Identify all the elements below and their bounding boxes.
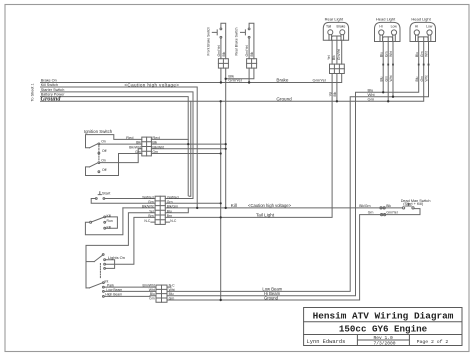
wire head light H2 leads [423, 37, 425, 42]
svg-text:Run: Run [107, 219, 113, 223]
wire lights N-C stub [167, 286, 171, 288]
wire ground branch mid [189, 101, 191, 196]
svg-text:Low: Low [391, 25, 398, 29]
front brake switch Q1 [221, 23, 226, 58]
wire front brake to buses [221, 68, 226, 82]
wire ignition Blk/Wht row [151, 148, 225, 150]
svg-text:Ignition Switch: Ignition Switch [84, 129, 113, 134]
svg-text:Ground: Ground [41, 96, 62, 103]
wire Kill Switch bus [41, 87, 198, 208]
svg-text:<Caution high voltage>: <Caution high voltage> [124, 82, 179, 87]
svg-text:High Beam: High Beam [105, 292, 122, 296]
head light H2 [410, 22, 436, 41]
svg-text:Brn: Brn [148, 214, 153, 218]
wire Ground top bus [41, 42, 424, 102]
svg-text:Grn: Grn [135, 150, 141, 154]
svg-text:Blk: Blk [250, 51, 254, 56]
svg-text:Low: Low [426, 25, 433, 29]
title block box [304, 308, 462, 346]
svg-text:To Sheet 1: To Sheet 1 [31, 83, 35, 101]
svg-text:Grn: Grn [152, 150, 158, 154]
svg-text:Red: Red [126, 135, 133, 140]
svg-text:On: On [101, 158, 106, 162]
svg-text:Rear Brake Switch: Rear Brake Switch [235, 27, 239, 55]
svg-text:Blk/Grn: Blk/Grn [359, 204, 370, 208]
svg-text:Grn/Yel: Grn/Yel [228, 78, 241, 83]
head light H1 [375, 22, 401, 41]
wire ground trunk A [220, 101, 222, 300]
svg-text:Grn/Yel: Grn/Yel [313, 78, 326, 83]
svg-text:Wht: Wht [425, 51, 429, 57]
wire Wht low-beam bus [167, 42, 429, 292]
svg-text:Brake: Brake [337, 25, 346, 29]
bullet connectors dead man row1 [380, 207, 382, 209]
svg-text:Grn: Grn [149, 297, 155, 301]
svg-text:150cc GY6 Engine: 150cc GY6 Engine [339, 323, 428, 334]
svg-text:Blk: Blk [222, 51, 226, 56]
svg-text:Start: Start [102, 190, 111, 195]
svg-text:Head Light: Head Light [376, 17, 396, 22]
svg-text:Grn/Yel: Grn/Yel [217, 45, 221, 56]
svg-text:Red: Red [152, 135, 159, 140]
svg-text:Wht: Wht [425, 75, 429, 81]
svg-text:Lynn Edwards: Lynn Edwards [307, 339, 346, 345]
svg-text:Kill: Kill [107, 214, 112, 218]
wire kill conn Brn row to lights [106, 217, 155, 264]
svg-text:Page 2 of 2: Page 2 of 2 [417, 339, 449, 345]
connector J1 front brake 2x2 [218, 59, 228, 68]
wire rear light to connector [332, 36, 342, 64]
wire Ground bottom bus to dead man switch [167, 209, 420, 300]
svg-text:Lights On: Lights On [108, 255, 125, 260]
wire Kill to dead man switch [165, 207, 402, 209]
svg-text:Grn/Yel: Grn/Yel [245, 45, 249, 56]
svg-text:Blu: Blu [379, 76, 383, 81]
svg-text:Ground: Ground [264, 295, 279, 300]
svg-text:Grn: Grn [167, 200, 173, 204]
connector J4 ignition 2x4 [142, 137, 152, 156]
svg-text:Blk: Blk [136, 141, 141, 145]
svg-text:Off: Off [102, 168, 107, 172]
svg-text:Grn/Yel: Grn/Yel [337, 49, 341, 60]
bullet connectors dead man row2 [381, 214, 383, 216]
svg-text:Kill Switch: Kill Switch [41, 83, 58, 87]
svg-text:Yel: Yel [149, 209, 154, 213]
svg-text:Brake On: Brake On [41, 78, 57, 82]
wire kill conn N-C stubs [151, 221, 170, 223]
rear light lamp [323, 22, 348, 40]
svg-text:Blk/Wht: Blk/Wht [152, 145, 164, 149]
wire head light H1 leads [383, 37, 393, 101]
svg-text:Grn: Grn [420, 76, 424, 82]
wire Blk trunk B [225, 79, 227, 208]
connector J3 rear light 3x2 [330, 64, 345, 73]
svg-text:Tail Light: Tail Light [256, 213, 275, 218]
wire ignition Grn row [151, 153, 220, 155]
svg-text:Rev 1.0: Rev 1.0 [374, 335, 394, 341]
svg-text:Front Brake Switch: Front Brake Switch [206, 27, 210, 56]
svg-text:Kill: Kill [231, 203, 237, 208]
svg-text:Yel/Red: Yel/Red [167, 195, 179, 199]
svg-text:N-C: N-C [170, 219, 177, 223]
svg-text:Blk/Wht: Blk/Wht [142, 205, 154, 209]
ignition switch S1 [89, 144, 98, 148]
wire kill conn Grn row to trunk [165, 202, 220, 204]
svg-text:Wht: Wht [389, 51, 393, 57]
wire Tail Light [165, 74, 332, 218]
wire rear light Blk to ground [336, 74, 338, 102]
wire Blu hi-beam bus [167, 42, 419, 296]
svg-text:Kill: Kill [107, 225, 112, 229]
wire Brake On bus [41, 74, 342, 83]
svg-text:Yel: Yel [328, 92, 332, 97]
svg-text:Grn: Grn [148, 200, 154, 204]
start switch S2 [98, 192, 101, 195]
svg-text:Wht: Wht [389, 75, 393, 81]
svg-text:(Start + Kill): (Start + Kill) [403, 202, 424, 206]
pin marks H1 [382, 64, 394, 66]
svg-text:Starter Switch: Starter Switch [41, 88, 65, 92]
svg-text:Yel: Yel [327, 55, 331, 60]
svg-text:Off: Off [102, 149, 107, 153]
svg-text:Blu: Blu [379, 52, 383, 57]
svg-text:Brn: Brn [167, 214, 172, 218]
svg-text:Blu: Blu [415, 76, 419, 81]
svg-text:Blk/Wht: Blk/Wht [129, 145, 141, 149]
dead man switch S6 [403, 207, 405, 209]
svg-text:Grn: Grn [384, 51, 388, 57]
wire Starter Switch bus [41, 92, 194, 199]
wire rear brake to buses [226, 68, 254, 82]
svg-text:Grn: Grn [368, 97, 375, 102]
connector J6 lights 2x4 [156, 285, 167, 302]
svg-text:Blk: Blk [332, 55, 336, 60]
wire kill conn Yel row to lights [86, 213, 155, 288]
svg-text:Low Beam: Low Beam [106, 288, 122, 292]
svg-text:Hensim ATV Wiring Diagram: Hensim ATV Wiring Diagram [313, 311, 454, 322]
svg-text:Blk/Grn: Blk/Grn [167, 205, 178, 209]
lights on switch S4 [86, 261, 94, 263]
connector J5 kill 2x6 [155, 196, 165, 224]
svg-text:Tail: Tail [326, 25, 331, 29]
svg-text:7/3/2000: 7/3/2000 [374, 341, 396, 347]
svg-text:Park: Park [107, 283, 114, 287]
svg-text:Blu: Blu [415, 52, 419, 57]
kill switch S3 [90, 221, 92, 223]
svg-text:Ground: Ground [276, 96, 292, 101]
wire Battery Power bus [41, 97, 189, 196]
rear brake switch Q2 [249, 23, 254, 58]
wire kill conn Blu row jog [165, 208, 188, 213]
svg-text:Brake: Brake [276, 78, 288, 83]
svg-text:N-C: N-C [144, 219, 151, 223]
svg-text:Grn: Grn [368, 211, 374, 215]
svg-text:Rear Light: Rear Light [325, 17, 344, 22]
svg-text:Blk: Blk [152, 141, 157, 145]
pin marks H2 [418, 64, 430, 66]
svg-text:Head Light: Head Light [411, 17, 431, 22]
svg-text:Blu: Blu [167, 209, 172, 213]
svg-text:Grn/Yel: Grn/Yel [386, 211, 397, 215]
svg-text:Grn: Grn [420, 51, 424, 57]
svg-text:Blk: Blk [386, 204, 391, 208]
svg-text:Grn: Grn [384, 76, 388, 82]
svg-text:<Caution high voltage>: <Caution high voltage> [248, 203, 292, 208]
svg-text:Hi: Hi [415, 25, 418, 29]
svg-text:Yel/Red: Yel/Red [142, 195, 154, 199]
svg-text:Blk: Blk [333, 91, 337, 96]
svg-text:On: On [101, 140, 106, 144]
svg-text:Grn: Grn [169, 297, 175, 301]
connector J2 rear brake 2x2 [247, 59, 257, 68]
beam switch S5 [86, 287, 90, 289]
svg-text:Hi: Hi [379, 25, 382, 29]
wire ignition Blk row [151, 143, 225, 145]
